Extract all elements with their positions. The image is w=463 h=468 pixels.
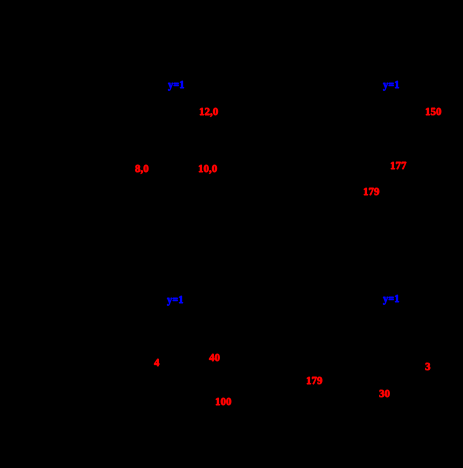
node value 177 (390, 161, 407, 172)
node value 40 (209, 353, 220, 364)
node value 12.0 (199, 107, 218, 118)
node value 179 upper (363, 187, 380, 198)
node y=1 label top-left (168, 81, 184, 92)
node value 150 (425, 107, 442, 118)
node y=1 label top-right (383, 81, 399, 92)
node value 100 (215, 397, 232, 408)
node value 30 (379, 389, 390, 400)
node value 179 lower (306, 376, 323, 387)
node y=1 label bottom-right (383, 295, 399, 306)
node value 3 (425, 362, 431, 373)
node value 10.0 (198, 164, 217, 175)
node value 8.0 (135, 164, 149, 175)
node y=1 label bottom-left (167, 296, 183, 307)
node value 4 (154, 358, 160, 369)
